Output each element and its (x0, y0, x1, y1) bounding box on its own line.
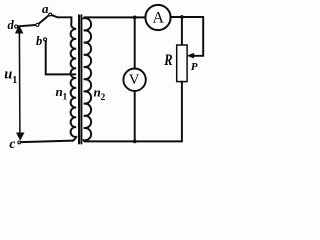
wire a to primary top (52, 15, 72, 17)
ammeter A (145, 5, 170, 30)
resistor R (rheostat body) (177, 45, 187, 82)
svg-text:A: A (153, 9, 165, 26)
transformer core (78, 15, 80, 143)
svg-text:P: P (191, 61, 198, 73)
wire voltmeter branch upper (134, 17, 136, 68)
contact b (44, 38, 47, 41)
wire R bottom lead (181, 82, 183, 142)
wire d to switch pivot (18, 25, 36, 26)
wire ammeter to top-right corner (171, 16, 203, 18)
svg-text:1: 1 (63, 92, 68, 102)
source arrow u1 (15, 26, 24, 141)
wire secondary top to ammeter (85, 16, 146, 18)
label R (163, 52, 173, 70)
svg-text:a: a (42, 1, 49, 16)
svg-text:b: b (36, 34, 42, 48)
switch lever (39, 15, 49, 23)
svg-text:2: 2 (101, 93, 106, 103)
primary winding n1 (71, 17, 76, 140)
voltmeter V (123, 69, 145, 91)
svg-text:1: 1 (12, 75, 17, 86)
svg-text:c: c (9, 136, 15, 151)
node junction at R top (180, 15, 184, 19)
svg-text:V: V (129, 72, 140, 88)
svg-text:d: d (8, 18, 15, 32)
terminal d (15, 25, 18, 28)
wire R top lead (181, 17, 183, 45)
wire b to primary tap (46, 41, 76, 75)
terminal c (18, 141, 21, 144)
svg-text:u: u (4, 67, 12, 83)
wiper arrowhead P (187, 53, 194, 58)
wire bottom right (85, 140, 182, 142)
node junction top (voltmeter branch) (133, 16, 137, 20)
node junction bottom (133, 140, 137, 144)
switch pivot (36, 23, 39, 26)
wire voltmeter branch lower (134, 91, 136, 141)
svg-text:R: R (163, 52, 173, 70)
secondary winding n2 (84, 17, 91, 141)
wire wiper arm (192, 17, 203, 56)
wire c to primary bottom (21, 141, 73, 143)
contact a (49, 13, 52, 16)
